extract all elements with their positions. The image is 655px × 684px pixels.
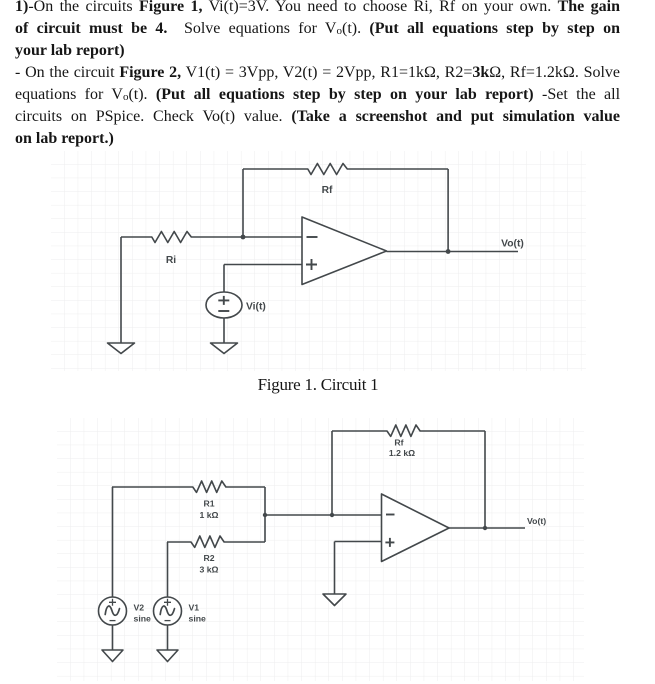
svg-text:sine: sine bbox=[189, 614, 207, 624]
svg-text:1 kΩ: 1 kΩ bbox=[199, 510, 218, 520]
svg-text:R2: R2 bbox=[203, 553, 214, 563]
svg-text:Rf: Rf bbox=[322, 185, 333, 196]
svg-text:Vi(t): Vi(t) bbox=[246, 301, 266, 312]
svg-text:Vo(t): Vo(t) bbox=[527, 516, 546, 526]
svg-text:3 kΩ: 3 kΩ bbox=[199, 565, 218, 575]
svg-text:1.2 kΩ: 1.2 kΩ bbox=[389, 448, 415, 458]
svg-text:V1: V1 bbox=[189, 603, 200, 613]
svg-text:V2: V2 bbox=[134, 603, 145, 613]
svg-text:Rf: Rf bbox=[394, 438, 403, 448]
svg-text:R1: R1 bbox=[203, 499, 214, 509]
svg-text:Vo(t): Vo(t) bbox=[501, 239, 524, 250]
svg-text:Ri: Ri bbox=[166, 255, 176, 266]
svg-text:sine: sine bbox=[134, 614, 152, 624]
